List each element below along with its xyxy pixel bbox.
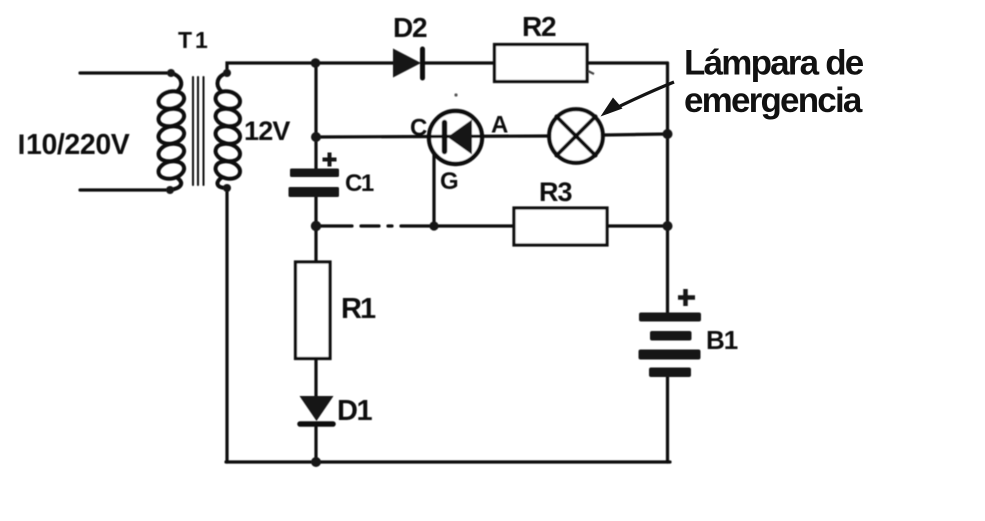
lamp cross stroke 1 bbox=[557, 117, 596, 156]
node: secondary bottom terminal bbox=[223, 184, 231, 192]
diode D1 triangle bbox=[300, 396, 334, 421]
wire: gate rail to R3 bbox=[434, 224, 514, 227]
wire: AC primary bottom lead bbox=[80, 188, 170, 191]
svg-text:A: A bbox=[491, 112, 508, 139]
wire: branch vertical from top rail to C1 bbox=[314, 63, 317, 169]
svg-text:B1: B1 bbox=[706, 325, 738, 355]
wire: R3 to right rail bbox=[607, 224, 668, 227]
battery B1 plus sign bbox=[678, 289, 695, 306]
wire: SCR gate lead bbox=[432, 154, 435, 226]
svg-text:C1: C1 bbox=[345, 170, 374, 197]
node: top rail / branch junction bbox=[311, 58, 321, 68]
svg-text:R3: R3 bbox=[539, 177, 572, 207]
node: gate rail / right rail junction bbox=[663, 221, 673, 231]
SCR body circle bbox=[429, 111, 482, 164]
battery B1 plates bbox=[639, 289, 702, 377]
lamp cross stroke 2 bbox=[557, 117, 596, 156]
svg-text:R1: R1 bbox=[341, 293, 376, 325]
node: primary top terminal bbox=[167, 69, 175, 77]
diode D1 cathode bar bbox=[300, 421, 333, 427]
node: primary bottom terminal bbox=[166, 186, 174, 194]
wire: bottom rail bbox=[226, 460, 670, 463]
wire: right rail upper segment bbox=[666, 63, 669, 313]
wire: top rail D2 cathode to R2 bbox=[424, 61, 495, 64]
node: gate lead / gate rail junction bbox=[429, 221, 438, 230]
resistor R3 body bbox=[514, 208, 607, 245]
svg-text:T1: T1 bbox=[178, 27, 211, 53]
transformer T1 core laminations bbox=[193, 77, 204, 185]
diode D2 cathode bar bbox=[420, 49, 425, 78]
svg-text:Lámpara de: Lámpara de bbox=[684, 44, 864, 83]
label 110/220V (clipped at left edge) bbox=[20, 135, 24, 155]
resistor R1 body bbox=[296, 262, 331, 359]
SCR anode triangle bbox=[448, 120, 473, 155]
wire: right rail lower segment bbox=[666, 377, 669, 462]
scan speck above SCR bbox=[454, 93, 457, 96]
wire: lamp to right rail bbox=[604, 134, 668, 135]
svg-text:C: C bbox=[410, 115, 427, 142]
svg-text:D2: D2 bbox=[393, 12, 427, 43]
SCR cathode bar bbox=[442, 123, 448, 152]
transformer T1 secondary winding bbox=[214, 73, 242, 188]
node: cathode rail / right rail junction bbox=[663, 129, 673, 139]
diode D2 triangle bbox=[393, 49, 421, 78]
battery B1 long plate 1 bbox=[639, 313, 701, 322]
battery B1 long plate 3 bbox=[639, 350, 701, 360]
node: branch / cathode rail junction bbox=[311, 132, 321, 142]
annotation arrow to lamp bbox=[607, 82, 674, 113]
capacitor C1 plus sign bbox=[323, 153, 337, 167]
transformer T1 primary winding bbox=[157, 73, 186, 190]
wire: left rail (secondary bottom to bottom rail) bbox=[225, 188, 228, 462]
battery B1 short plate 4 bbox=[649, 368, 691, 378]
capacitor C1 bottom plate bbox=[289, 187, 340, 197]
svg-text:G: G bbox=[440, 168, 459, 195]
node: branch / gate rail junction bbox=[311, 221, 321, 231]
svg-text:10/220V: 10/220V bbox=[26, 129, 130, 161]
wire: secondary top to top rail bbox=[227, 63, 393, 73]
resistor R2 body bbox=[495, 45, 588, 82]
wire: top rail R2 to right rail bbox=[587, 61, 668, 64]
svg-text:12V: 12V bbox=[244, 116, 290, 146]
wire: AC primary top lead bbox=[80, 71, 171, 74]
lamp (emergency lamp) body bbox=[549, 109, 603, 163]
node: secondary top terminal bbox=[223, 69, 231, 77]
wire: cathode rail from branch through SCR to lamp bbox=[316, 136, 548, 137]
wire: R1 bottom to D1 anode bbox=[314, 359, 317, 397]
wire: C1 bottom to gate rail junction and R1 bbox=[314, 197, 317, 262]
svg-text:R2: R2 bbox=[522, 11, 556, 42]
battery B1 short plate 2 bbox=[650, 331, 692, 341]
wire: D1 cathode to bottom rail bbox=[314, 427, 317, 462]
svg-text:D1: D1 bbox=[337, 395, 372, 427]
node: D1 / bottom rail junction bbox=[311, 457, 321, 467]
svg-text:emergencia: emergencia bbox=[684, 81, 863, 120]
scan speck at R2 lower right bbox=[588, 71, 594, 74]
wire: gate rail dash-dot segment from C1 junction bbox=[316, 224, 434, 227]
capacitor C1 top plate bbox=[290, 169, 339, 178]
